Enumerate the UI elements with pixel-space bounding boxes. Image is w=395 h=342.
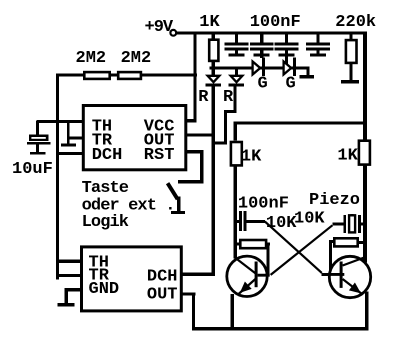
svg-text:1K: 1K — [337, 147, 358, 166]
svg-text:R: R — [198, 88, 209, 107]
svg-text:Logik: Logik — [82, 213, 129, 232]
svg-text:R: R — [223, 88, 234, 107]
svg-text:100nF: 100nF — [250, 13, 301, 32]
svg-text:Taste: Taste — [82, 179, 129, 198]
svg-text:DCH: DCH — [92, 146, 123, 165]
svg-text:OUT: OUT — [147, 285, 178, 304]
svg-text:220k: 220k — [335, 13, 376, 32]
svg-text:1K: 1K — [199, 13, 220, 32]
svg-text:+9V: +9V — [145, 18, 174, 37]
svg-text:2M2: 2M2 — [121, 49, 152, 68]
svg-text:GND: GND — [89, 280, 120, 299]
svg-text:10uF: 10uF — [12, 160, 53, 179]
svg-text:10K: 10K — [294, 210, 325, 229]
svg-text:10K: 10K — [266, 214, 297, 233]
svg-text:Piezo: Piezo — [309, 191, 360, 210]
svg-text:2M2: 2M2 — [76, 49, 107, 68]
svg-text:G: G — [258, 75, 268, 94]
svg-text:DCH: DCH — [147, 268, 178, 287]
svg-text:RST: RST — [144, 146, 175, 165]
svg-text:100nF: 100nF — [238, 195, 289, 214]
svg-text:G: G — [286, 75, 296, 94]
svg-text:1K: 1K — [241, 148, 262, 167]
